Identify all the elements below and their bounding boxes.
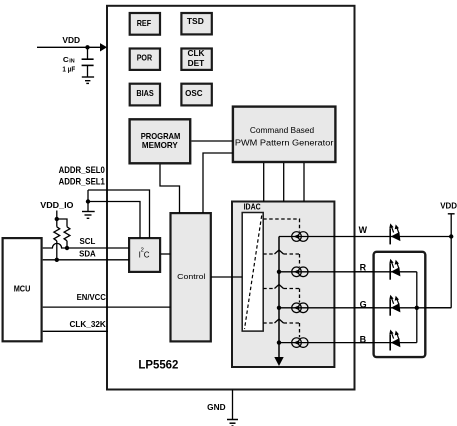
ground (ADDR_SEL) bbox=[82, 212, 95, 219]
node GND bbox=[207, 390, 232, 420]
LED R bbox=[389, 259, 400, 280]
IDAC dashed row 1 bbox=[263, 219, 299, 232]
IDAC dashed row 4 bbox=[263, 323, 299, 337]
svg-text:W: W bbox=[359, 225, 368, 235]
LED B bbox=[389, 330, 400, 351]
svg-text:VDD_IO: VDD_IO bbox=[40, 201, 74, 210]
block MCU bbox=[3, 238, 42, 341]
wire CLK_32K bbox=[43, 330, 108, 332]
resistor R1 (SDA pull-up) bbox=[54, 219, 60, 262]
block IDAC outer bbox=[232, 202, 334, 368]
svg-text:R: R bbox=[360, 262, 367, 272]
IDAC dashed row 3 bbox=[263, 289, 299, 303]
svg-text:PROGRAM: PROGRAM bbox=[141, 132, 181, 141]
wire R/B anode join verticals bbox=[416, 272, 418, 343]
wire CmdGen bottom to IDAC 1 bbox=[263, 163, 265, 202]
block POR bbox=[130, 49, 160, 70]
wire ADDR_SEL vertical to ground bbox=[87, 190, 89, 212]
wire ADDR_SEL0 to I2C bbox=[88, 190, 150, 238]
wire SDA bbox=[43, 259, 129, 261]
IDAC inner DAC rectangle bbox=[242, 213, 263, 332]
svg-text:PWM Pattern Generator: PWM Pattern Generator bbox=[235, 137, 334, 147]
IDAC bus vertical with arrow bbox=[274, 237, 283, 367]
LED G bbox=[389, 295, 400, 316]
crossover hop row 4 bbox=[275, 319, 284, 323]
wire R inside LED box bbox=[355, 271, 417, 273]
svg-text:EN/VCC: EN/VCC bbox=[77, 293, 106, 302]
svg-text:POR: POR bbox=[137, 54, 152, 63]
svg-text:SCL: SCL bbox=[80, 237, 96, 246]
crossover hop row 3 bbox=[275, 285, 284, 289]
block Control bbox=[171, 213, 211, 341]
current source B bbox=[292, 338, 308, 348]
block OSC bbox=[181, 84, 211, 106]
svg-text:VDD: VDD bbox=[440, 202, 457, 211]
svg-text:1 µF: 1 µF bbox=[62, 64, 75, 73]
svg-text:Command Based: Command Based bbox=[250, 125, 315, 135]
svg-text:Control: Control bbox=[177, 272, 206, 281]
resistor R2 (SCL pull-up) bbox=[64, 227, 70, 250]
LED box (RGB) bbox=[374, 252, 426, 357]
wire PM right to CmdGen left bbox=[191, 140, 233, 142]
svg-text:CLK: CLK bbox=[188, 49, 205, 58]
wire W output bbox=[279, 236, 451, 238]
svg-text:MEMORY: MEMORY bbox=[142, 141, 178, 150]
svg-text:CLK_32K: CLK_32K bbox=[70, 320, 106, 329]
wire CmdGen left to Control top bbox=[203, 153, 233, 213]
LED W bbox=[389, 223, 400, 244]
svg-text:IDAC: IDAC bbox=[244, 203, 261, 212]
svg-text:C: C bbox=[144, 250, 150, 259]
svg-text:VDD: VDD bbox=[62, 36, 80, 45]
svg-text:G: G bbox=[360, 299, 367, 309]
chip outline LP5562 bbox=[107, 6, 355, 390]
wire CmdGen bottom to IDAC 2 bbox=[283, 163, 285, 202]
svg-text:GND: GND bbox=[207, 403, 225, 412]
wire EN/VCC bbox=[43, 306, 171, 308]
current source R bbox=[292, 267, 308, 277]
node VDD_IO bbox=[40, 201, 74, 227]
ground (CIN) bbox=[82, 77, 94, 83]
svg-text:ADDR_SEL1: ADDR_SEL1 bbox=[59, 176, 105, 186]
IDAC dashed row 2 bbox=[263, 254, 299, 267]
svg-text:SDA: SDA bbox=[79, 250, 96, 259]
ground (GND pin) bbox=[227, 420, 238, 426]
block CLK DET bbox=[181, 49, 211, 70]
wire G inside LED box bbox=[355, 307, 451, 309]
svg-text:TSD: TSD bbox=[187, 17, 204, 26]
svg-text:BIAS: BIAS bbox=[136, 89, 154, 98]
capacitor CIN 1uF bbox=[62, 47, 93, 77]
svg-text:B: B bbox=[360, 335, 367, 345]
node R/B join on G line bbox=[415, 306, 419, 310]
wire ADDR_SEL1 to I2C bbox=[88, 202, 140, 239]
svg-text:OSC: OSC bbox=[185, 89, 202, 98]
crossover hop row 2 bbox=[275, 250, 284, 254]
block REF bbox=[130, 13, 160, 35]
current source G bbox=[292, 303, 308, 313]
current source W bbox=[292, 232, 308, 242]
svg-text:MCU: MCU bbox=[14, 285, 31, 294]
block I2C bbox=[129, 238, 160, 272]
wire B inside LED box bbox=[355, 342, 417, 344]
wire SCL (with hop) bbox=[43, 243, 129, 248]
block TSD bbox=[181, 13, 211, 34]
svg-text:C: C bbox=[63, 57, 69, 64]
svg-text:DET: DET bbox=[188, 59, 205, 68]
svg-text:ADDR_SEL0: ADDR_SEL0 bbox=[59, 165, 105, 175]
node VDD right bbox=[440, 202, 457, 308]
svg-text:REF: REF bbox=[137, 19, 151, 28]
block PROGRAM MEMORY bbox=[130, 119, 191, 163]
wire R output bbox=[279, 272, 417, 308]
block BIAS bbox=[130, 84, 160, 106]
node VDD top-left bbox=[37, 36, 107, 52]
svg-text:LP5562: LP5562 bbox=[138, 358, 178, 372]
wire CmdGen bottom to IDAC 3 bbox=[303, 163, 305, 202]
wire B output bbox=[279, 308, 417, 343]
wire Control to IDAC bbox=[211, 276, 242, 278]
wire G output bbox=[279, 307, 451, 309]
wire I2C to Control bbox=[161, 253, 171, 255]
wire PM bottom to Control top bbox=[160, 165, 180, 214]
block Command Based PWM Pattern Generator bbox=[233, 107, 336, 162]
